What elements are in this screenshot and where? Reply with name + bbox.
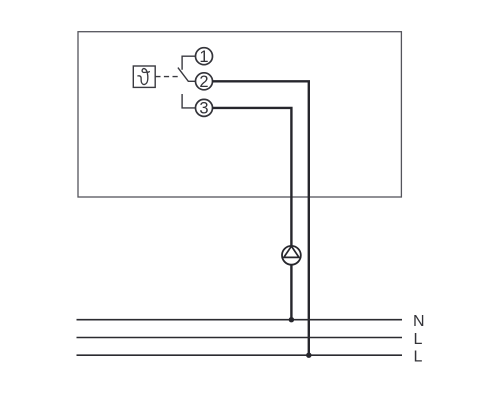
terminal circle 3 (196, 99, 213, 116)
pump P1 (282, 246, 301, 265)
terminal circle 1 (196, 48, 213, 65)
mains line L1 (77, 337, 403, 339)
dashed actuation link (155, 76, 180, 78)
mains line N (77, 319, 403, 321)
thermostat symbol (theta) (138, 69, 149, 85)
mains line L2 (77, 354, 403, 356)
junction on L2 (306, 353, 311, 358)
contact 3 lead (182, 94, 196, 108)
junction on N (289, 317, 294, 322)
switch arm (178, 68, 196, 82)
svg-text:1: 1 (199, 48, 208, 66)
thermostat sensor box (133, 66, 155, 87)
contact 1 lead (182, 56, 196, 70)
controller outline box (78, 32, 401, 197)
svg-text:N: N (413, 313, 425, 330)
terminal circle 2 (196, 73, 213, 90)
wire from terminal 3 through pump to N line (212, 108, 291, 320)
svg-text:L: L (414, 349, 423, 366)
svg-text:L: L (414, 331, 423, 348)
svg-text:3: 3 (199, 100, 208, 118)
svg-text:2: 2 (199, 73, 208, 91)
wire from terminal 2 to bottom L line (212, 81, 308, 355)
